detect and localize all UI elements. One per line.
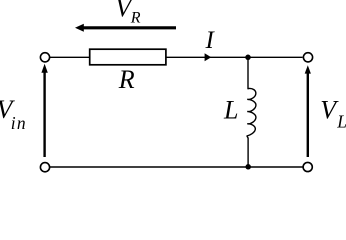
- label R: [118, 65, 135, 94]
- label I: [205, 27, 216, 54]
- arrow V_in (points up, between left terminals): [41, 64, 47, 157]
- svg-text:L: L: [223, 96, 238, 125]
- svg-text:R: R: [118, 65, 135, 94]
- wire: from resistor to top junction and right terminal: [166, 56, 303, 58]
- svg-text:L: L: [336, 111, 346, 131]
- label V_L: [320, 96, 346, 132]
- terminal bottom-right: [303, 162, 312, 171]
- svg-text:in: in: [11, 113, 27, 133]
- label L: [223, 96, 238, 125]
- arrow I (current direction arrowhead on top wire): [205, 53, 212, 61]
- arrow V_L (points up, between right terminals): [305, 65, 311, 157]
- terminal top-right: [303, 53, 312, 62]
- arrow V_R (points left, above resistor): [75, 24, 176, 32]
- wire: inductor bottom to bottom junction: [247, 138, 249, 167]
- resistor R: [90, 49, 166, 65]
- node: bottom junction: [245, 164, 251, 170]
- wire: top-left segment from terminal to resistor: [50, 56, 91, 58]
- label V_R: [115, 0, 141, 26]
- terminal bottom-left: [40, 163, 49, 172]
- inductor L (3-loop coil): [247, 88, 256, 138]
- label V_in: [0, 95, 27, 133]
- node: top junction: [245, 55, 251, 61]
- wire: bottom rail: [50, 166, 304, 168]
- terminal top-left: [40, 53, 49, 62]
- wire: junction down to inductor top: [247, 57, 249, 89]
- svg-text:R: R: [130, 9, 141, 26]
